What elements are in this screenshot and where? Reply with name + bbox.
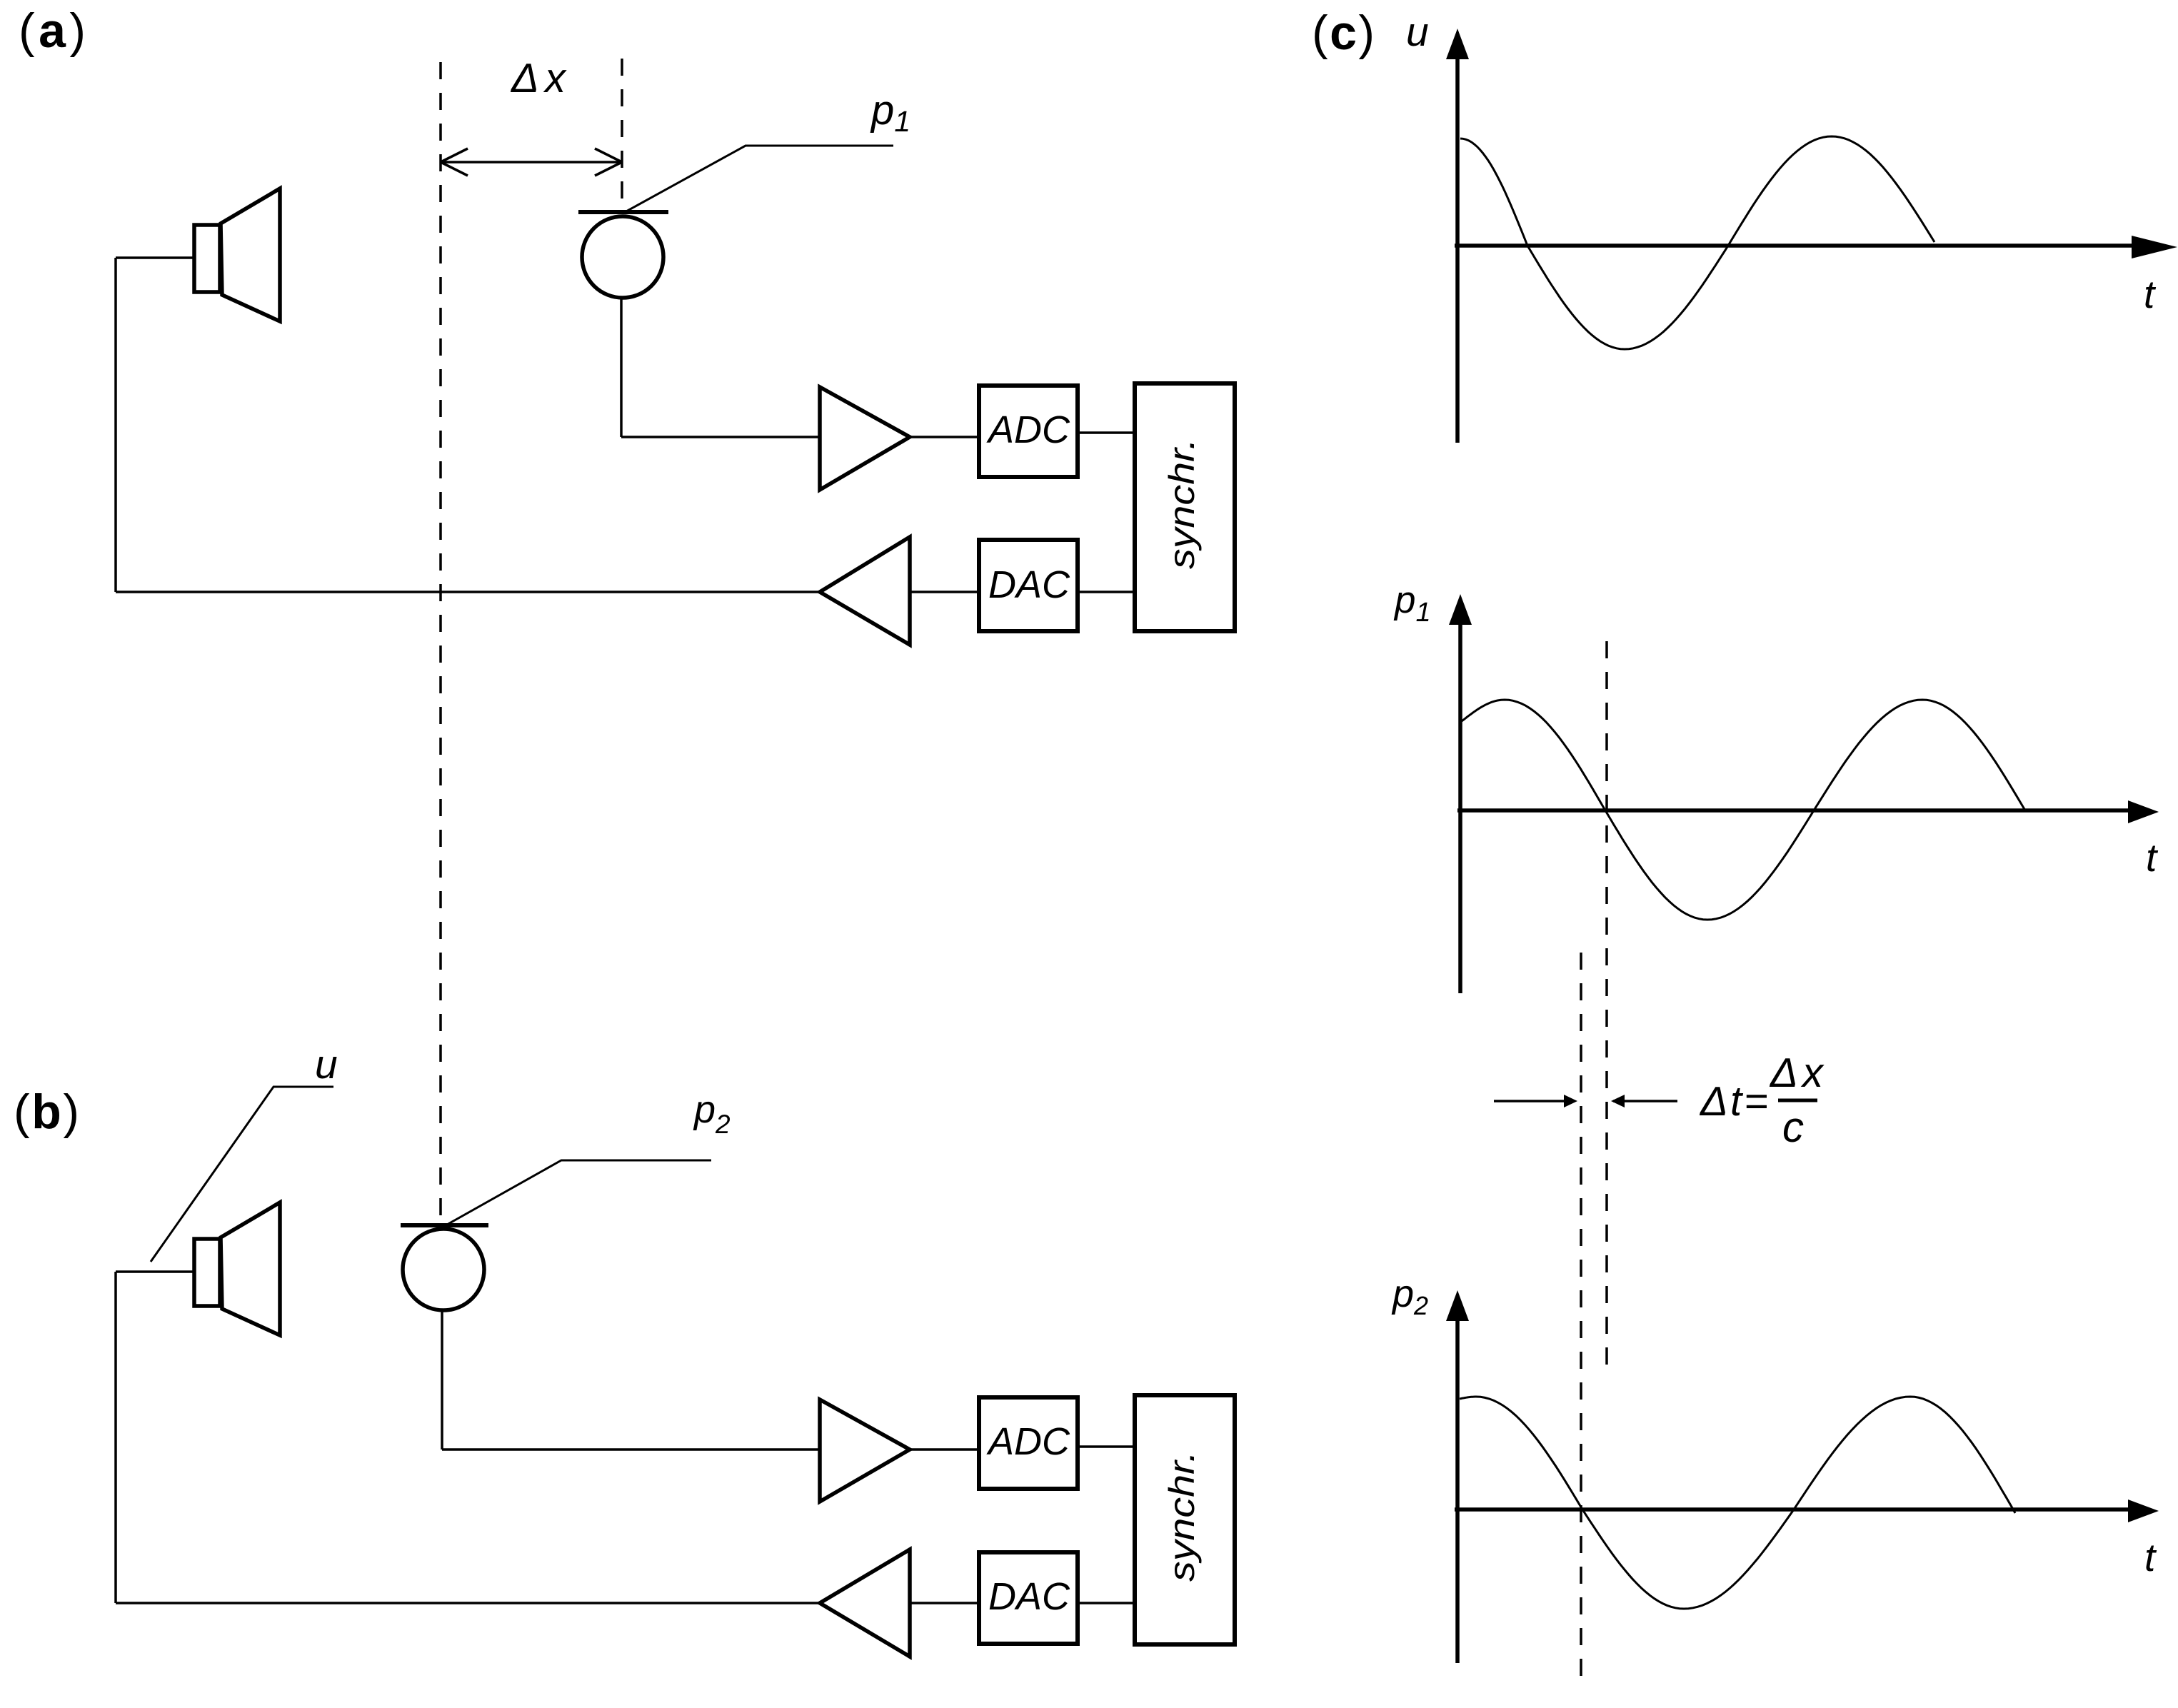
p2 plot y-axis (1446, 1290, 1469, 1663)
amplifier A1 (mic preamp, panel a) (820, 387, 910, 490)
p1 plot axis label t (2146, 835, 2159, 880)
u waveform curve (1460, 136, 1934, 349)
wire bottom horizontal panel a to amplifier A2 (116, 591, 820, 593)
wire speaker-b input (116, 1270, 194, 1273)
svg-text:(c): (c) (1312, 6, 1375, 60)
wire synchr to DAC (panel a) (1078, 591, 1135, 593)
amplifier A3 (mic preamp, panel b) (820, 1400, 910, 1502)
p1 plot axis label p1 (1393, 579, 1431, 628)
microphone M1 diaphragm bar (578, 210, 668, 214)
svg-text:c: c (1782, 1103, 1804, 1151)
svg-text:ADC: ADC (986, 1420, 1070, 1463)
label u (speaker signal) (315, 1042, 338, 1087)
block synchr. (panel a) (1135, 383, 1235, 631)
dimension arrow Δx (441, 149, 622, 176)
wire microphone M1 to amplifier A1 (621, 436, 820, 438)
pointer line p2 (447, 1160, 711, 1225)
loudspeaker LS2 horn (221, 1202, 280, 1335)
panel label (c) (1312, 6, 1375, 60)
wire ADC to synchr (panel b) (1078, 1445, 1135, 1448)
block DAC (panel b) (979, 1552, 1078, 1644)
wire bottom horizontal panel b to amplifier A4 (116, 1602, 820, 1604)
loudspeaker LS2 driver box (194, 1239, 220, 1306)
wire speaker-a input (116, 256, 194, 259)
wire A3 to ADC (panel b) (910, 1448, 979, 1451)
wire microphone M2 to amplifier A3 (442, 1448, 820, 1451)
amplifier A4 (power amp, panel b) (820, 1549, 910, 1657)
pointer line u (151, 1087, 333, 1262)
svg-text:Δt=: Δt= (1699, 1078, 1768, 1125)
loudspeaker LS1 horn (221, 189, 280, 321)
label p2 (panel b) (693, 1088, 731, 1139)
dashed reference line through microphone M2 plane (439, 62, 442, 1223)
svg-text:ADC: ADC (986, 408, 1070, 451)
panel label (b) (14, 1085, 79, 1139)
label Δx (510, 55, 567, 101)
u plot x-axis (t) (1455, 236, 2177, 258)
block ADC (panel b) (979, 1397, 1078, 1489)
p1 plot y-axis (1449, 594, 1472, 993)
wire microphone M2 down (441, 1310, 443, 1450)
wire synchr to DAC (panel b) (1078, 1602, 1135, 1604)
block DAC (panel a) (979, 540, 1078, 631)
p1 waveform curve (1462, 700, 2025, 920)
svg-text:u: u (315, 1042, 338, 1087)
wire ADC to synchr (panel a) (1078, 431, 1135, 434)
p1 plot x-axis (t) (1457, 800, 2159, 823)
panel label (a) (19, 4, 86, 58)
wire microphone M1 down (620, 298, 623, 437)
wire DAC to amplifier A4 (panel b) (910, 1602, 979, 1604)
label p1 (panel a) (870, 87, 910, 138)
microphone M1 body (582, 216, 663, 298)
formula Δt = Δx / c (1699, 1050, 1825, 1151)
svg-text:synchr.: synchr. (1162, 438, 1202, 569)
svg-text:DAC: DAC (988, 563, 1070, 606)
dashed marker line at p1 zero crossing (1605, 641, 1608, 1378)
svg-text:Δx: Δx (1769, 1050, 1825, 1096)
dashed line through microphone M1 plane (621, 59, 623, 208)
svg-text:(b): (b) (14, 1085, 79, 1139)
wire left vertical panel b (114, 1272, 117, 1603)
dashed marker line at p2 zero crossing (1580, 953, 1582, 1688)
microphone M2 diaphragm bar (401, 1223, 488, 1227)
loudspeaker LS1 driver box (194, 225, 220, 292)
u plot y-axis (1446, 29, 1469, 443)
wire DAC to amplifier A2 (panel a) (910, 591, 979, 593)
svg-text:Δx: Δx (510, 55, 567, 101)
Δt dimension arrows (1494, 1095, 1677, 1107)
p2 plot axis label p2 (1391, 1272, 1428, 1320)
p2 plot x-axis (t) (1455, 1499, 2159, 1522)
pointer line p1 (626, 146, 893, 211)
block synchr. (panel b) (1135, 1395, 1235, 1644)
wire left vertical panel a (114, 258, 117, 592)
svg-text:synchr.: synchr. (1162, 1451, 1202, 1582)
u plot axis label t (2144, 272, 2157, 316)
microphone M2 body (403, 1229, 484, 1310)
amplifier A2 (power amp, panel a) (820, 537, 910, 645)
p2 plot axis label t (2144, 1535, 2157, 1579)
u plot axis label u (1406, 9, 1429, 55)
p2 waveform curve (1460, 1397, 2015, 1609)
svg-text:u: u (1406, 9, 1429, 55)
svg-text:(a): (a) (19, 4, 86, 58)
svg-text:DAC: DAC (988, 1575, 1070, 1618)
wire A1 to ADC (panel a) (910, 436, 979, 438)
block ADC (panel a) (979, 386, 1078, 477)
